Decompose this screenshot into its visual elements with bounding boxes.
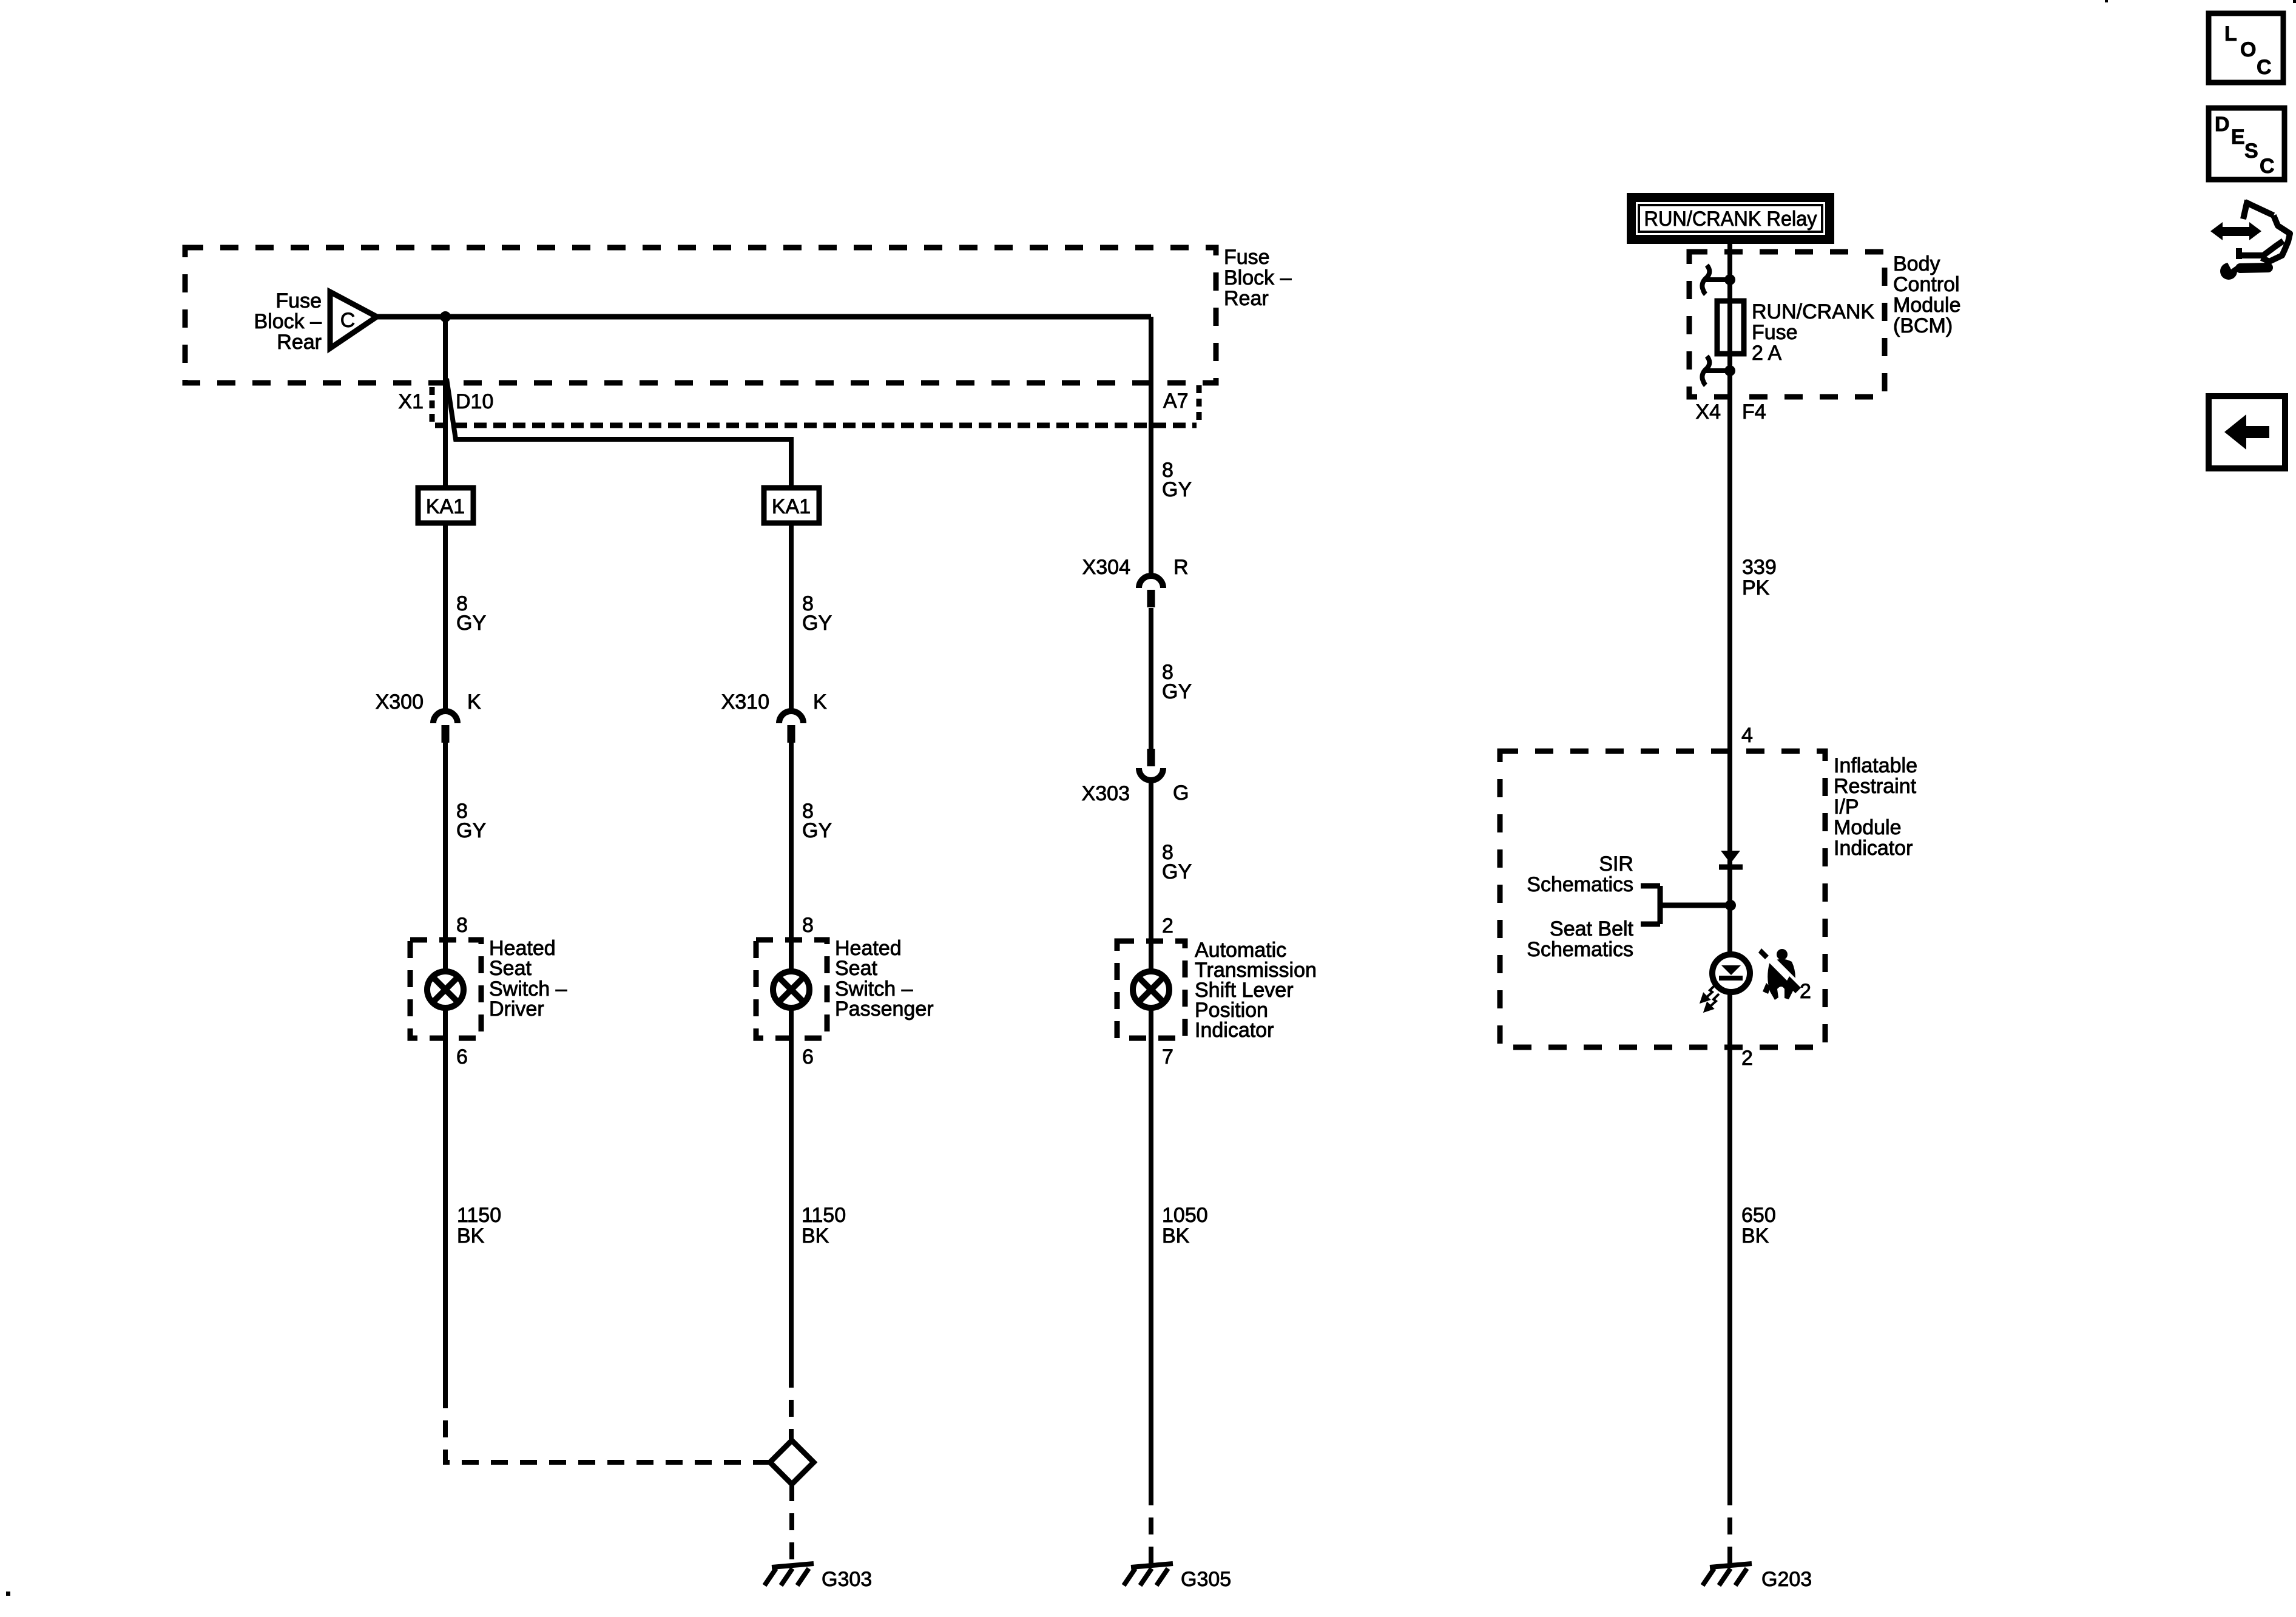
svg-text:GY: GY	[456, 612, 486, 635]
connector X304	[1082, 556, 1189, 607]
svg-text:S: S	[2244, 140, 2258, 163]
svg-text:Schematics: Schematics	[1527, 938, 1633, 961]
svg-text:L: L	[2224, 22, 2237, 46]
svg-text:650: 650	[1741, 1204, 1776, 1227]
connector strip dotted line	[435, 423, 1197, 428]
wire label 650 BK	[1741, 1204, 1776, 1247]
svg-text:Fuse: Fuse	[1752, 321, 1798, 344]
svg-text:2: 2	[1162, 914, 1173, 937]
svg-text:BK: BK	[802, 1224, 829, 1247]
seat belt schematics label	[1527, 917, 1633, 961]
svg-text:Body: Body	[1893, 252, 1940, 275]
svg-text:Fuse: Fuse	[1224, 246, 1270, 269]
svg-text:Seat: Seat	[489, 957, 532, 980]
svg-text:E: E	[2231, 126, 2245, 149]
branch wire to col2	[447, 379, 791, 488]
svg-text:C: C	[2260, 155, 2275, 178]
svg-text:G305: G305	[1181, 1568, 1231, 1591]
svg-text:X300: X300	[376, 690, 424, 714]
splice diamond S-node	[770, 1440, 814, 1484]
ground G305	[1124, 1564, 1231, 1591]
svg-text:O: O	[2240, 38, 2256, 61]
svg-text:KA1: KA1	[772, 495, 811, 518]
svg-text:Indicator: Indicator	[1834, 837, 1913, 860]
wire label 8 GY col1 lower	[456, 800, 486, 842]
indicator lamp shift lever	[1133, 971, 1169, 1008]
SIR schematics label	[1527, 852, 1633, 896]
LOC icon	[2209, 13, 2283, 83]
connector X300	[376, 690, 481, 743]
pin A7 label	[1163, 385, 1199, 425]
svg-text:SIR: SIR	[1599, 852, 1633, 876]
svg-text:Driver: Driver	[489, 998, 544, 1021]
junction to schematics bracket	[1725, 900, 1736, 911]
svg-text:X303: X303	[1082, 782, 1130, 805]
svg-text:A7: A7	[1163, 390, 1189, 413]
svg-text:I/P: I/P	[1834, 795, 1859, 819]
heated seat switch driver dashed box	[410, 940, 481, 1038]
svg-text:1150: 1150	[802, 1204, 846, 1227]
svg-text:Module: Module	[1893, 294, 1961, 317]
wire label 1150 BK col2	[802, 1204, 846, 1247]
svg-text:Passenger: Passenger	[835, 998, 934, 1021]
wire label 1150 BK col1	[457, 1204, 501, 1247]
svg-text:X310: X310	[721, 690, 769, 714]
svg-text:Seat Belt: Seat Belt	[1550, 917, 1634, 940]
svg-text:7: 7	[1162, 1045, 1173, 1068]
heated seat switch passenger label	[835, 937, 934, 1021]
indicator lamp driver	[427, 971, 464, 1008]
svg-text:Seat: Seat	[835, 957, 877, 980]
wire label 8 GY col3 top	[1162, 459, 1192, 501]
svg-text:GY: GY	[1162, 680, 1192, 703]
svg-text:RUN/CRANK Relay: RUN/CRANK Relay	[1644, 208, 1817, 231]
LED indicator	[1712, 954, 1750, 992]
svg-text:C: C	[340, 309, 356, 332]
svg-text:D: D	[2215, 113, 2230, 136]
svg-text:GY: GY	[456, 819, 486, 842]
svg-text:PK: PK	[1742, 576, 1770, 599]
connector X310	[721, 690, 827, 743]
page artifacts	[6, 1592, 10, 1596]
indicator lamp passenger	[773, 971, 809, 1008]
dashed wire col4 to G203	[1727, 1488, 1732, 1564]
fuse block rear dashed box	[185, 248, 1216, 383]
wire col3 below indicator	[1149, 1008, 1153, 1488]
main feed wire from C	[377, 314, 1151, 320]
inflatable restraint IP module indicator dashed box	[1500, 751, 1825, 1047]
svg-text:2 A: 2 A	[1752, 342, 1781, 365]
ground G303	[765, 1564, 872, 1591]
wire col1 drop	[443, 317, 448, 488]
RUN/CRANK fuse label	[1752, 300, 1874, 365]
wire col1 X300 to switch	[443, 743, 448, 974]
wire col1 below switch	[443, 1008, 448, 1391]
svg-text:6: 6	[456, 1045, 468, 1068]
svg-text:2: 2	[1800, 980, 1811, 1003]
svg-text:C: C	[2257, 56, 2272, 79]
svg-text:2: 2	[1741, 1047, 1753, 1070]
dashed wire col2 to splice	[789, 1371, 794, 1440]
svg-text:Control: Control	[1893, 273, 1960, 296]
svg-text:KA1: KA1	[426, 495, 465, 518]
wire col2 X310 to switch	[789, 743, 794, 974]
svg-text:Rear: Rear	[277, 331, 322, 354]
wire col3 X303 to indicator	[1149, 781, 1153, 974]
fuse block rear label (left)	[254, 289, 322, 354]
wire col1 KA1 to X300	[443, 523, 448, 711]
svg-text:BK: BK	[1162, 1224, 1190, 1247]
LED arrows	[1701, 985, 1719, 1011]
svg-text:BK: BK	[1741, 1224, 1769, 1247]
wire label 339 PK	[1742, 556, 1777, 599]
wire col3 drop from feed	[1149, 317, 1153, 576]
svg-text:4: 4	[1741, 724, 1753, 747]
shift lever position indicator dashed box	[1117, 941, 1185, 1038]
back arrow icon	[2209, 396, 2285, 468]
hand tool icon	[2237, 200, 2290, 262]
connector X1 pin D10 labels	[398, 387, 493, 425]
svg-text:1050: 1050	[1162, 1204, 1208, 1227]
wire label 8 GY col2 lower	[802, 800, 832, 842]
svg-text:Block –: Block –	[254, 310, 322, 333]
wire label 8 GY col1 upper	[456, 592, 486, 635]
svg-text:Inflatable: Inflatable	[1834, 754, 1917, 777]
svg-text:K: K	[467, 690, 481, 714]
svg-text:G303: G303	[822, 1568, 872, 1591]
wire label 1050 BK col3	[1162, 1204, 1208, 1247]
svg-text:RUN/CRANK: RUN/CRANK	[1752, 300, 1874, 323]
svg-text:6: 6	[802, 1045, 814, 1068]
connector KA1 (passenger)	[764, 488, 819, 523]
diode D1	[1719, 851, 1743, 867]
svg-text:1150: 1150	[457, 1204, 501, 1227]
svg-text:K: K	[813, 690, 827, 714]
wire label 8 GY col3 lower	[1162, 841, 1192, 883]
inflatable restraint label	[1834, 754, 1917, 860]
connector KA1 (driver)	[418, 488, 473, 523]
svg-text:Indicator: Indicator	[1195, 1019, 1274, 1042]
svg-text:D10: D10	[456, 390, 493, 413]
heated seat switch driver label	[489, 937, 567, 1021]
wire col2 below switch	[789, 1008, 794, 1371]
heated seat switch passenger dashed box	[756, 940, 827, 1038]
wire col4 main	[1727, 244, 1732, 1488]
shift lever indicator label	[1195, 939, 1317, 1042]
clip terminal upper	[1702, 265, 1709, 294]
dashed wire splice to G303	[789, 1484, 794, 1564]
svg-text:GY: GY	[802, 612, 832, 635]
C out-triangle connector	[330, 292, 377, 348]
wire col3 X304 to X303	[1149, 608, 1153, 749]
ground G203	[1703, 1564, 1812, 1591]
svg-text:Fuse: Fuse	[275, 289, 322, 312]
wire col2 KA1 to X310	[789, 523, 794, 711]
connector X303	[1082, 749, 1189, 805]
svg-text:R: R	[1173, 556, 1189, 579]
svg-text:G203: G203	[1761, 1568, 1812, 1591]
RUN/CRANK fuse	[1717, 301, 1744, 354]
svg-text:GY: GY	[802, 819, 832, 842]
svg-text:X4: X4	[1695, 400, 1721, 424]
clip terminal lower	[1702, 356, 1709, 385]
svg-text:G: G	[1173, 781, 1189, 805]
svg-text:GY: GY	[1162, 478, 1192, 501]
svg-text:Rear: Rear	[1224, 287, 1269, 310]
wire label 8 GY col2 upper	[802, 592, 832, 635]
svg-text:8: 8	[456, 914, 468, 937]
svg-text:X1: X1	[398, 390, 424, 413]
svg-text:339: 339	[1742, 556, 1777, 579]
svg-text:BK: BK	[457, 1224, 485, 1247]
svg-text:X304: X304	[1082, 556, 1130, 579]
fuse block rear label (right)	[1224, 246, 1292, 310]
BCM dashed box	[1689, 252, 1885, 397]
svg-text:Schematics: Schematics	[1527, 873, 1633, 896]
RUN/CRANK Relay header box	[1627, 193, 1834, 244]
svg-text:8: 8	[802, 914, 814, 937]
junction node	[440, 311, 451, 322]
bracket wire	[1641, 886, 1730, 924]
wire label 8 GY col3 middle	[1162, 661, 1192, 703]
connector X4 pin F4 labels	[1695, 400, 1766, 424]
dashed ground run col1	[445, 1391, 770, 1462]
DESC icon	[2209, 108, 2284, 180]
svg-text:(BCM): (BCM)	[1893, 314, 1953, 337]
dashed wire col3 to G305	[1149, 1488, 1153, 1564]
svg-text:Restraint: Restraint	[1834, 775, 1917, 798]
svg-text:Module: Module	[1834, 816, 1902, 839]
seat belt telltale icon	[1758, 948, 1811, 1003]
svg-text:Block –: Block –	[1224, 266, 1292, 289]
svg-text:GY: GY	[1162, 860, 1192, 883]
BCM label	[1893, 252, 1961, 337]
svg-text:F4: F4	[1742, 400, 1766, 424]
